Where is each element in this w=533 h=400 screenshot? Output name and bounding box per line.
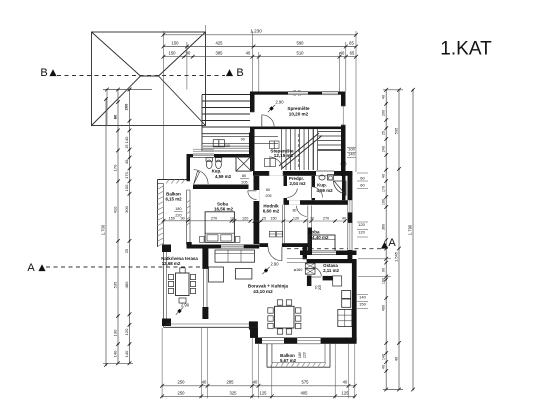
svg-text:150: 150 bbox=[172, 40, 180, 45]
svg-text:ø160: ø160 bbox=[294, 267, 304, 272]
svg-text:250: 250 bbox=[178, 380, 186, 385]
svg-text:Kup.: Kup. bbox=[317, 182, 327, 187]
svg-text:2.90: 2.90 bbox=[276, 100, 285, 105]
svg-text:425: 425 bbox=[216, 40, 224, 45]
svg-text:90: 90 bbox=[382, 268, 386, 272]
svg-text:125: 125 bbox=[260, 390, 268, 395]
svg-text:14,40 m2: 14,40 m2 bbox=[309, 235, 329, 240]
svg-text:140: 140 bbox=[124, 136, 129, 143]
svg-text:40: 40 bbox=[124, 159, 129, 164]
svg-text:12,68 m2: 12,68 m2 bbox=[162, 261, 181, 266]
svg-text:Boravak + Kuhinja: Boravak + Kuhinja bbox=[248, 283, 289, 288]
svg-text:65: 65 bbox=[349, 40, 354, 45]
svg-text:B: B bbox=[236, 67, 243, 79]
svg-text:1.700: 1.700 bbox=[101, 224, 106, 235]
svg-text:90: 90 bbox=[186, 51, 191, 56]
svg-text:505: 505 bbox=[394, 127, 399, 134]
svg-text:40: 40 bbox=[202, 380, 207, 385]
svg-text:B: B bbox=[40, 67, 47, 79]
svg-text:90: 90 bbox=[241, 138, 245, 142]
svg-text:120: 120 bbox=[358, 230, 365, 235]
svg-text:65: 65 bbox=[350, 51, 355, 56]
svg-text:385: 385 bbox=[216, 51, 224, 56]
svg-text:200: 200 bbox=[124, 103, 129, 110]
svg-text:5,67 m2: 5,67 m2 bbox=[280, 358, 297, 363]
svg-text:170: 170 bbox=[124, 171, 129, 178]
svg-text:575: 575 bbox=[302, 380, 310, 385]
svg-text:10: 10 bbox=[230, 216, 234, 220]
svg-text:150: 150 bbox=[270, 216, 276, 220]
svg-text:150: 150 bbox=[169, 51, 177, 56]
svg-text:250: 250 bbox=[178, 390, 186, 395]
svg-text:405: 405 bbox=[301, 390, 309, 395]
svg-text:43,10 m2: 43,10 m2 bbox=[253, 289, 273, 294]
svg-text:100: 100 bbox=[382, 199, 386, 205]
svg-text:100: 100 bbox=[382, 278, 386, 284]
svg-text:60: 60 bbox=[360, 183, 365, 188]
svg-text:(40): (40) bbox=[340, 162, 346, 166]
svg-text:90: 90 bbox=[180, 216, 184, 220]
svg-text:1.545: 1.545 bbox=[394, 251, 399, 262]
svg-text:140: 140 bbox=[124, 350, 129, 357]
svg-text:Soba: Soba bbox=[308, 229, 319, 234]
svg-text:410: 410 bbox=[113, 206, 118, 213]
svg-text:80: 80 bbox=[266, 188, 270, 192]
svg-text:270: 270 bbox=[211, 216, 217, 220]
svg-text:2,04 m2: 2,04 m2 bbox=[289, 181, 306, 186]
svg-text:270: 270 bbox=[323, 216, 329, 220]
svg-text:80: 80 bbox=[242, 174, 246, 178]
svg-text:40: 40 bbox=[394, 356, 399, 361]
svg-text:12,15 m2: 12,15 m2 bbox=[274, 153, 294, 158]
svg-text:6,60 m2: 6,60 m2 bbox=[263, 208, 280, 213]
svg-text:25: 25 bbox=[382, 131, 386, 135]
svg-text:140: 140 bbox=[382, 354, 386, 360]
svg-text:A: A bbox=[388, 237, 396, 249]
svg-text:25: 25 bbox=[262, 216, 266, 220]
svg-text:400: 400 bbox=[382, 305, 386, 311]
svg-text:10: 10 bbox=[310, 216, 314, 220]
svg-text:285: 285 bbox=[227, 380, 235, 385]
svg-text:4,59 m2: 4,59 m2 bbox=[316, 188, 333, 193]
svg-text:40: 40 bbox=[342, 216, 346, 220]
svg-text:300: 300 bbox=[124, 205, 129, 212]
svg-text:120: 120 bbox=[242, 216, 248, 220]
svg-text:180: 180 bbox=[298, 352, 302, 358]
svg-text:150: 150 bbox=[169, 216, 175, 220]
svg-text:40: 40 bbox=[382, 174, 386, 178]
svg-text:205: 205 bbox=[266, 194, 272, 198]
svg-text:205: 205 bbox=[318, 285, 322, 291]
svg-text:220: 220 bbox=[224, 144, 230, 148]
svg-text:140: 140 bbox=[113, 350, 118, 357]
svg-text:205: 205 bbox=[241, 180, 247, 184]
svg-text:2,11 m2: 2,11 m2 bbox=[323, 268, 339, 273]
svg-text:240: 240 bbox=[382, 146, 386, 152]
svg-text:1.790: 1.790 bbox=[408, 224, 413, 235]
svg-text:80: 80 bbox=[293, 209, 297, 213]
svg-text:125: 125 bbox=[342, 390, 350, 395]
svg-text:1.KAT: 1.KAT bbox=[440, 39, 492, 60]
svg-text:10,20 m2: 10,20 m2 bbox=[289, 111, 309, 116]
svg-text:6,15 m2: 6,15 m2 bbox=[165, 196, 182, 201]
svg-text:120: 120 bbox=[358, 222, 365, 227]
svg-text:170: 170 bbox=[382, 186, 386, 192]
svg-text:4,59 m2: 4,59 m2 bbox=[215, 174, 232, 179]
svg-text:80: 80 bbox=[113, 114, 118, 119]
svg-text:130: 130 bbox=[113, 329, 118, 336]
svg-text:Kup.: Kup. bbox=[212, 169, 222, 174]
svg-text:510: 510 bbox=[297, 51, 305, 56]
svg-text:60: 60 bbox=[360, 176, 365, 181]
svg-text:A: A bbox=[27, 262, 35, 274]
svg-text:150: 150 bbox=[359, 302, 366, 307]
svg-text:2.90: 2.90 bbox=[271, 262, 280, 267]
svg-text:100: 100 bbox=[124, 184, 129, 191]
svg-text:25: 25 bbox=[125, 145, 129, 149]
svg-text:1.230: 1.230 bbox=[250, 29, 262, 34]
svg-text:40: 40 bbox=[382, 95, 386, 99]
svg-text:200: 200 bbox=[382, 110, 386, 116]
svg-text:360: 360 bbox=[382, 224, 386, 230]
svg-text:16,56 m2: 16,56 m2 bbox=[214, 206, 234, 211]
svg-text:590: 590 bbox=[297, 40, 305, 45]
svg-text:40: 40 bbox=[340, 51, 345, 56]
svg-text:535: 535 bbox=[113, 281, 118, 288]
svg-text:220: 220 bbox=[303, 352, 307, 358]
svg-text:40: 40 bbox=[246, 51, 251, 56]
svg-text:480: 480 bbox=[124, 281, 129, 288]
svg-text:170: 170 bbox=[113, 164, 118, 171]
svg-text:Spremište: Spremište bbox=[287, 106, 310, 111]
svg-text:25: 25 bbox=[124, 248, 129, 253]
svg-text:140: 140 bbox=[359, 294, 366, 299]
svg-text:325: 325 bbox=[230, 390, 238, 395]
svg-text:40: 40 bbox=[382, 365, 386, 369]
svg-text:40: 40 bbox=[253, 380, 258, 385]
svg-text:180: 180 bbox=[175, 207, 181, 211]
svg-text:120: 120 bbox=[124, 328, 129, 335]
svg-text:120: 120 bbox=[293, 216, 299, 220]
svg-text:40: 40 bbox=[343, 380, 348, 385]
